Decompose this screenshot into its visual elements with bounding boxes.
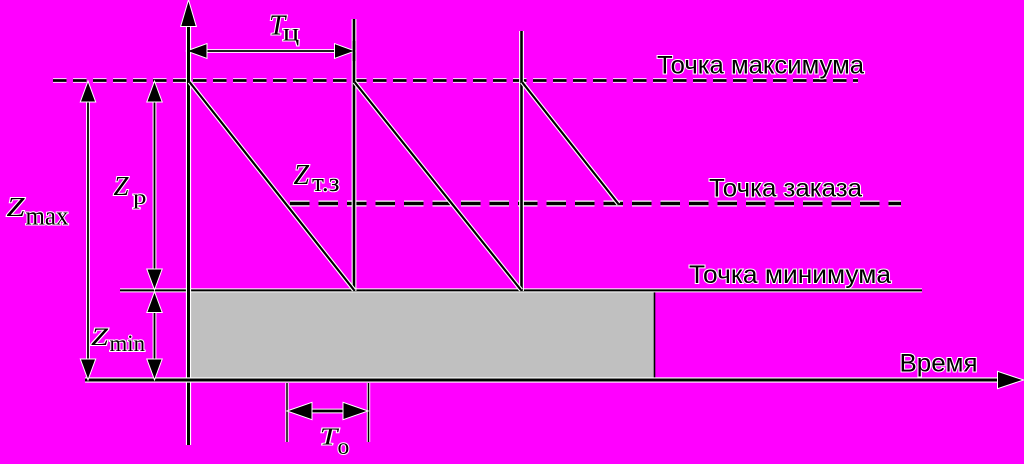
svg-text:Z: Z xyxy=(7,192,26,222)
label: T_о (lead time) xyxy=(320,425,349,460)
label: Z_min xyxy=(91,324,145,356)
dimension arrow Tc (cycle time) xyxy=(188,41,354,61)
svg-text:Точка минимума: Точка минимума xyxy=(689,261,891,289)
gray stock band rectangle xyxy=(189,291,655,380)
dimension arrow Zmax xyxy=(81,83,95,379)
dimension arrow To (order lead time) xyxy=(289,403,367,419)
svg-text:т.з: т.з xyxy=(312,168,340,197)
svg-text:Точка максимума: Точка максимума xyxy=(657,51,864,79)
label: T_ц (cycle time) xyxy=(269,9,299,46)
dimension arrow Zmin xyxy=(148,293,162,379)
wire: consumption diagonal 1 xyxy=(190,82,355,290)
label: Z_p (working stock) xyxy=(114,171,147,209)
svg-text:Z: Z xyxy=(91,324,109,351)
node: maximum level dashed line xyxy=(53,78,858,83)
wire: second cycle vertical line xyxy=(352,19,357,291)
wire: horizontal time axis xyxy=(85,372,1022,388)
dimension arrow Zp xyxy=(148,83,162,289)
wire: consumption diagonal 3 xyxy=(522,82,619,204)
node: minimum level line (Точка минимума level) xyxy=(120,288,922,292)
svg-text:Точка заказа: Точка заказа xyxy=(709,175,862,203)
svg-text:о: о xyxy=(338,434,350,460)
wire: vertical axis (stock level) xyxy=(181,2,195,446)
tick: right boundary of To xyxy=(367,383,370,442)
svg-text:Время: Время xyxy=(900,350,978,378)
svg-text:Z: Z xyxy=(114,171,130,201)
svg-text:min: min xyxy=(110,331,146,356)
svg-text:ц: ц xyxy=(283,20,300,47)
svg-text:Z: Z xyxy=(294,160,310,191)
wire: consumption diagonal 2 xyxy=(355,82,522,290)
svg-text:T: T xyxy=(320,425,340,451)
tick: left boundary of To xyxy=(285,383,288,442)
svg-text:max: max xyxy=(26,202,69,231)
label: Z_т.з (order point level) xyxy=(294,160,340,197)
node: order point dashed line xyxy=(290,201,901,207)
label: Z_max xyxy=(7,192,69,231)
wire: third cycle vertical line xyxy=(519,31,524,291)
svg-text:p: p xyxy=(133,188,147,209)
